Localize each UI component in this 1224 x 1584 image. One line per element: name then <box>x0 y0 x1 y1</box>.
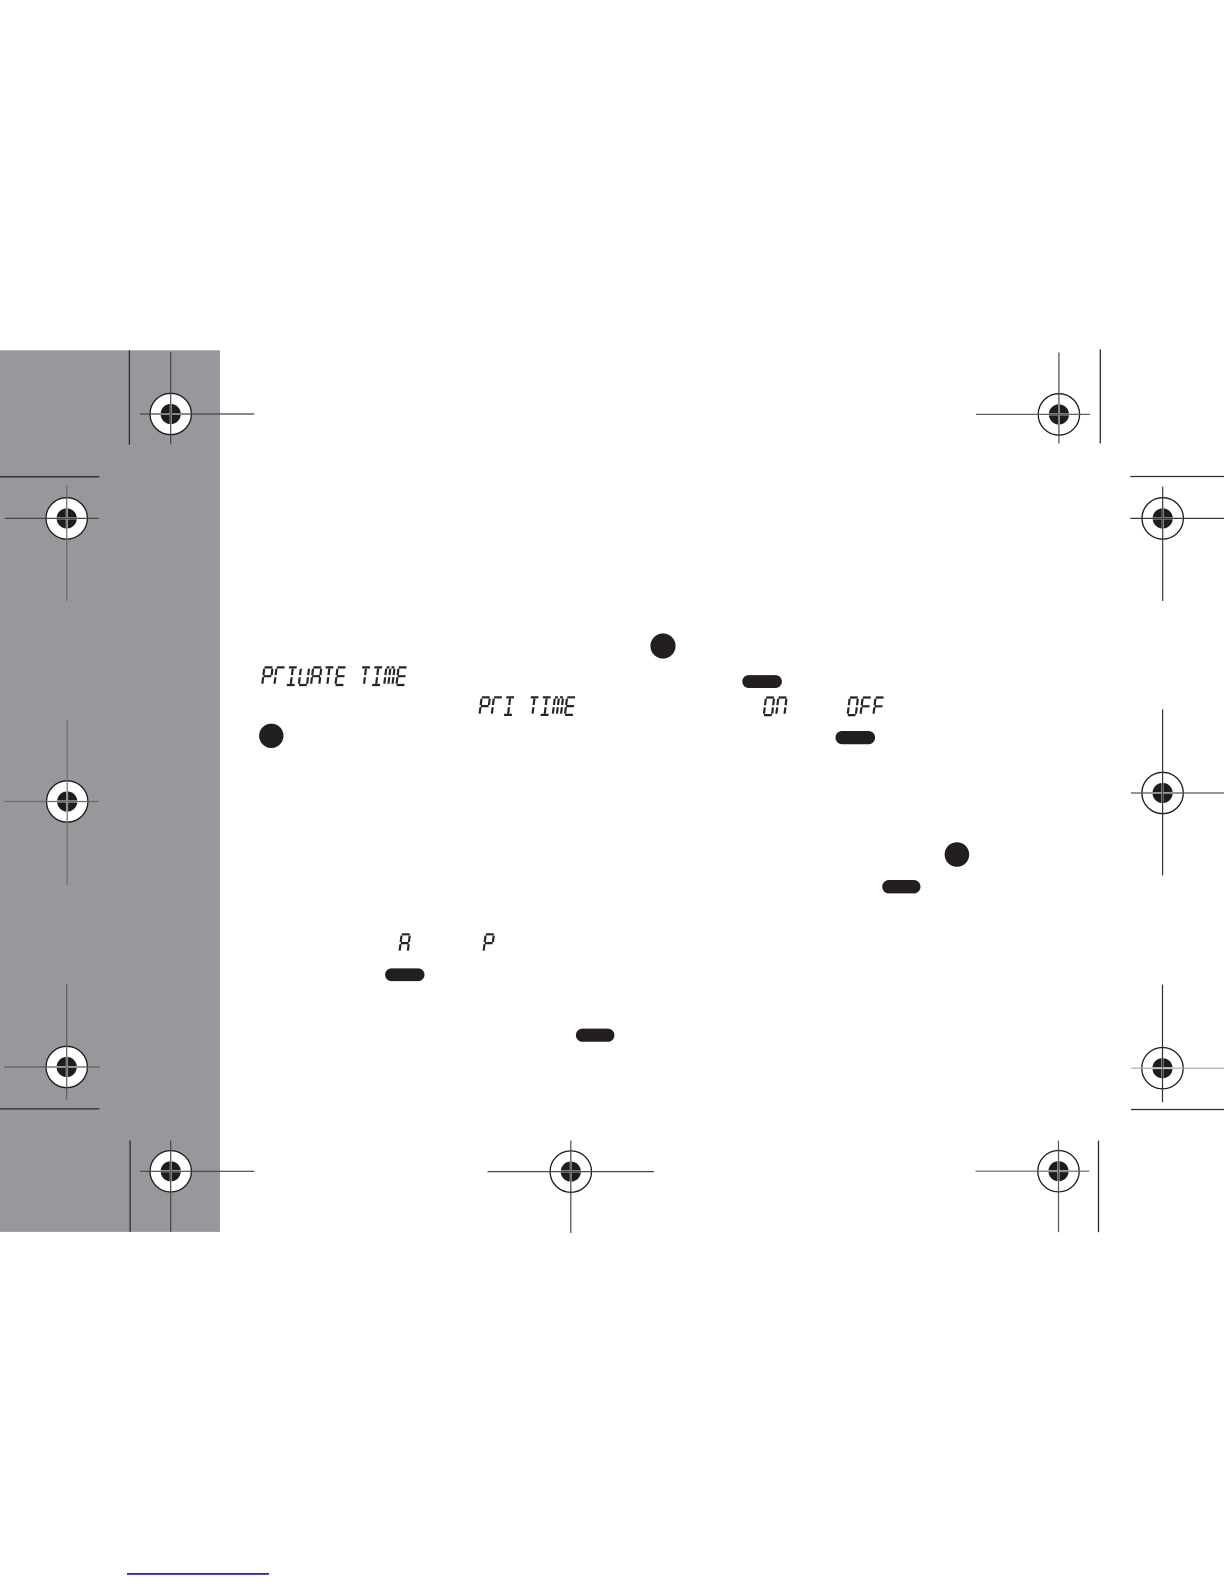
registration mark: top-right <box>976 353 1090 444</box>
callout dot: step dot 3 <box>945 842 970 867</box>
crop line: bottom-right vertical <box>1098 1141 1100 1233</box>
crop line: right upper horizontal <box>1130 476 1224 478</box>
pointer dash: dash near ON <box>742 675 782 688</box>
blue footer rule <box>127 1573 269 1575</box>
registration mark: right edge upper <box>1130 487 1224 601</box>
pointer dash: dash lower center <box>576 1029 615 1042</box>
pointer dash: dash below A <box>385 968 424 981</box>
crop line: left lower horizontal <box>0 1108 99 1110</box>
lcd text OFF <box>848 698 884 716</box>
lcd letter A <box>400 934 410 950</box>
callout dot: step dot 1 <box>650 633 675 658</box>
crop line: left upper horizontal <box>0 476 99 478</box>
pointer dash: dash mid right <box>882 880 920 893</box>
grey sidebar strip <box>0 350 220 1232</box>
crop line: top-right vertical <box>1099 349 1101 443</box>
lcd letter P <box>484 934 494 950</box>
callout dot: step dot 2 <box>259 724 283 748</box>
lcd text ON <box>764 698 787 716</box>
lcd text PRI TIME <box>480 697 576 715</box>
registration mark: left edge lower <box>4 985 100 1100</box>
registration mark: bottom-right <box>976 1141 1090 1233</box>
lcd text PRIVATE TIME <box>262 667 406 685</box>
registration mark: left edge upper <box>5 485 99 601</box>
crop line: top-left vertical <box>128 350 130 444</box>
registration mark: right edge lower <box>1131 985 1224 1102</box>
registration mark: bottom-left on grey <box>140 1141 254 1233</box>
registration mark: bottom-center <box>488 1141 655 1234</box>
registration mark: right edge middle <box>1131 709 1224 875</box>
crop line: bottom-left vertical <box>129 1141 131 1233</box>
crop line: right lower horizontal <box>1131 1109 1224 1111</box>
pointer dash: dash below OFF <box>836 731 876 744</box>
registration mark: left edge middle <box>5 720 99 885</box>
registration mark: top-left on grey <box>140 352 255 444</box>
